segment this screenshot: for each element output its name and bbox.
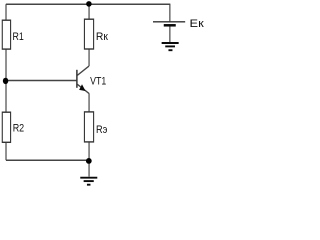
svg-text:Rк: Rк (96, 31, 109, 43)
svg-text:Eк: Eк (190, 18, 204, 30)
svg-text:R2: R2 (13, 122, 24, 134)
svg-text:VT1: VT1 (90, 76, 107, 88)
svg-text:R1: R1 (13, 31, 25, 43)
svg-text:Rэ: Rэ (96, 124, 107, 136)
